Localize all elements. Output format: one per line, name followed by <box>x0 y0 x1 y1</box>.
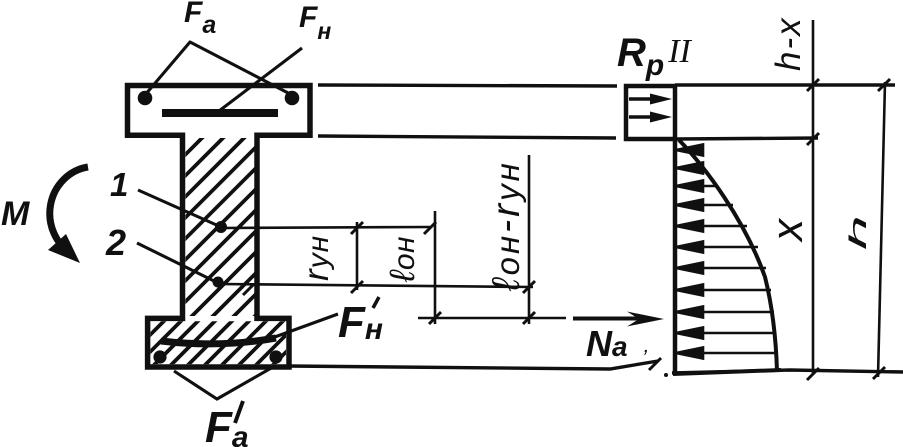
svg-text:‚: ‚ <box>643 332 649 357</box>
svg-text:2: 2 <box>105 222 126 263</box>
svg-text:M: M <box>1 195 30 233</box>
svg-text:ℓон: ℓон <box>383 236 422 283</box>
svg-text:x: x <box>763 217 812 243</box>
svg-text:h: h <box>845 215 872 250</box>
svg-text:1: 1 <box>110 166 128 203</box>
svg-text:ℓон-rун: ℓон-rун <box>485 160 528 292</box>
svg-text:h-x: h-x <box>769 16 808 71</box>
svg-text:rун: rун <box>297 235 336 281</box>
